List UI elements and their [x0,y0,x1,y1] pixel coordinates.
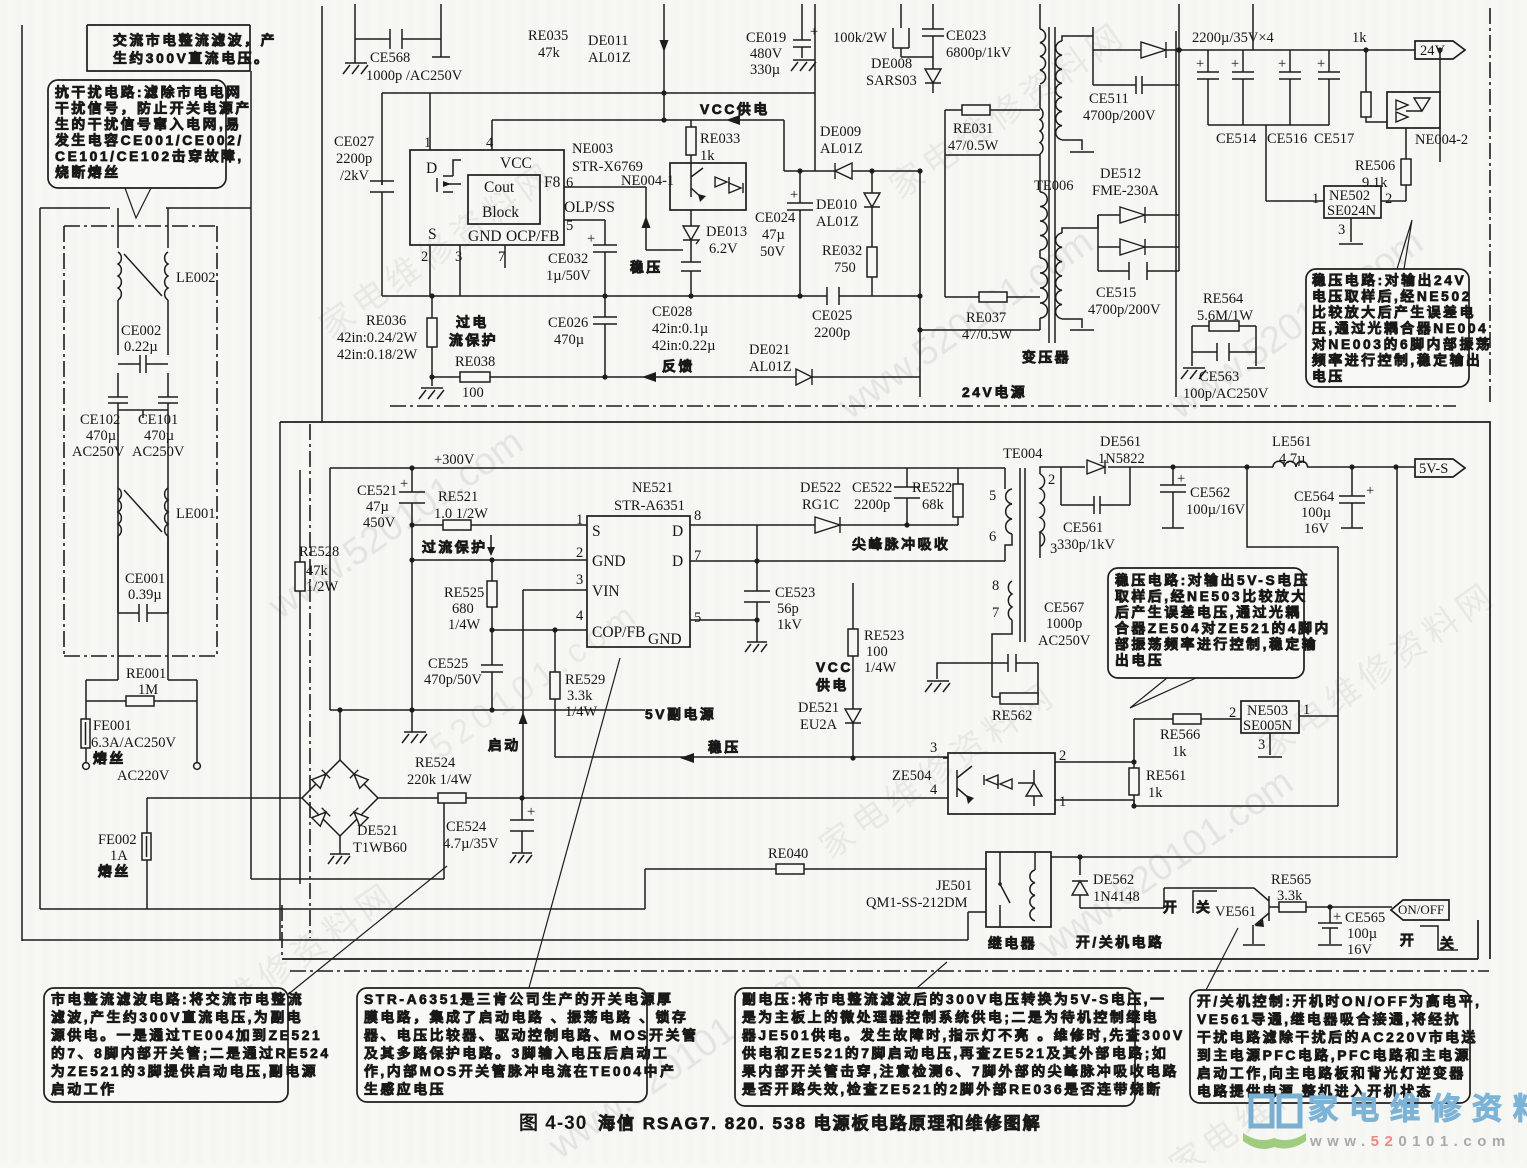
svg-text:市电整流滤波电路:将交流市电整流: 市电整流滤波电路:将交流市电整流 [51,991,304,1007]
svg-text:470µ: 470µ [554,332,584,348]
resistor RE561 [1133,762,1135,806]
svg-text:AL01Z: AL01Z [816,214,859,230]
svg-text:CE511: CE511 [1089,91,1129,107]
svg-text:RE038: RE038 [455,354,495,370]
svg-text:启动: 启动 [488,737,521,753]
svg-text:3: 3 [930,740,937,756]
callout box B: anti-interference note [48,80,226,188]
transistor VE561 [1253,888,1269,944]
svg-text:RE031: RE031 [953,121,993,137]
svg-text:CE561: CE561 [1063,520,1103,536]
callout E pointer [917,962,947,988]
svg-text:CE567: CE567 [1044,600,1084,616]
svg-text:GND: GND [592,553,626,570]
outer enclosure left wall [21,25,23,941]
svg-text:16V: 16V [1304,521,1330,537]
svg-text:1N4148: 1N4148 [1093,889,1140,905]
svg-text:部振荡频率进行控制,稳定输: 部振荡频率进行控制,稳定输 [1115,636,1318,652]
svg-text:RE523: RE523 [864,628,904,644]
svg-text:4: 4 [930,782,938,798]
svg-text:开/关机电路: 开/关机电路 [1076,934,1164,950]
svg-text:SE024N: SE024N [1327,203,1377,219]
IC NE003 STR-X6769 [410,150,564,245]
ground RE036 [419,377,444,399]
relay JE501 [986,852,1051,927]
svg-text:启动工作,向主电路板和背光灯逆变器: 启动工作,向主电路板和背光灯逆变器 [1197,1065,1466,1081]
svg-text:+: + [1278,56,1286,72]
svg-text:6800p/1kV: 6800p/1kV [946,45,1012,61]
svg-text:OLP/SS: OLP/SS [564,199,615,216]
electrolytic CE516 [1279,50,1301,125]
24V output tag [1415,41,1465,59]
svg-text:+: + [1196,56,1204,72]
resistor RE528 [299,470,301,884]
callout box 24V regulation [1306,269,1469,387]
svg-text:1: 1 [1312,191,1319,207]
svg-text:VIN: VIN [592,583,620,600]
svg-text:4: 4 [486,135,494,151]
svg-text:关: 关 [1196,899,1212,915]
svg-text:DE011: DE011 [588,33,629,49]
callout pointer [1397,220,1412,269]
svg-text:Cout: Cout [484,179,515,196]
svg-text:生感应电压: 生感应电压 [364,1081,446,1097]
svg-text:CE515: CE515 [1096,285,1136,301]
stabilize feedback wire [555,756,948,758]
svg-text:470p/50V: 470p/50V [424,672,483,688]
capacitor CE567 [992,620,1038,697]
svg-text:RG1C: RG1C [802,497,839,513]
capacitor CE525 [481,630,503,710]
svg-text:D: D [672,523,683,540]
svg-text:是否开路失效,检查ZE521的2脚外部RE036是否连带烧断: 是否开路失效,检查ZE521的2脚外部RE036是否连带烧断 [742,1081,1163,1097]
svg-text:+: + [1317,56,1325,72]
svg-text:D: D [672,553,683,570]
svg-text:6: 6 [989,529,996,545]
svg-text:CE032: CE032 [548,251,588,267]
svg-text:海信 RSAG7. 820. 538 电源板电路原理和维修图: 海信 RSAG7. 820. 538 电源板电路原理和维修图解 [598,1113,1042,1133]
wire 300V from bridge [378,797,948,799]
svg-text:反馈: 反馈 [662,358,695,374]
capacitor CE515 [1098,247,1179,280]
resistor RE562 [1000,693,1038,704]
capacitor CE025 [801,287,920,305]
svg-text:源供电。一是通过TE004加到ZE521: 源供电。一是通过TE004加到ZE521 [51,1027,322,1043]
svg-text:24V电源: 24V电源 [962,384,1027,400]
svg-text:680: 680 [452,601,474,617]
TE006 wires left [920,4,1040,330]
svg-text:+300V: +300V [434,452,475,468]
svg-text:家电维修资料网: 家电维修资料网 [1308,1093,1527,1126]
svg-text:3: 3 [576,572,583,588]
diode DE010 [871,171,873,193]
svg-text:100: 100 [866,644,888,660]
svg-text:1k: 1k [1148,785,1163,801]
capacitor CE565 [1318,907,1342,945]
svg-text:480V: 480V [750,46,783,62]
diode DE009 [835,163,852,179]
capacitor CE561 [1061,467,1130,514]
NE003 area box top [382,93,815,185]
wire DE562 to VE561 [1080,888,1254,908]
svg-text:2: 2 [1048,472,1055,488]
capacitor CE562 [1160,467,1186,528]
resistor RE032 [871,207,873,296]
svg-text:8: 8 [694,508,701,524]
ZE504 pin2 wire [1055,761,1134,763]
pin wires NE003 [430,93,505,296]
svg-text:CE019: CE019 [746,30,786,46]
svg-text:VCC供电: VCC供电 [700,101,770,117]
svg-text:100: 100 [462,385,484,401]
svg-text:+: + [1366,483,1374,499]
svg-text:STR-A6351: STR-A6351 [614,498,685,514]
svg-text:CE023: CE023 [946,28,986,44]
relay feed wire [1051,467,1397,857]
svg-text:GND: GND [648,631,682,648]
svg-text:烧断熔丝: 烧断熔丝 [55,164,121,180]
svg-text:取样后,经NE503比较放大: 取样后,经NE503比较放大 [1115,588,1308,604]
ground TE004 pin7 [937,663,992,679]
svg-text:+: + [790,187,798,203]
winding 5-6 connection [1005,468,1012,561]
svg-text:42in:0.1µ: 42in:0.1µ [652,321,708,337]
svg-text:比较放大后产生误差电: 比较放大后产生误差电 [1312,304,1476,320]
svg-text:熔丝: 熔丝 [98,863,131,879]
resistor RE036 [431,296,433,377]
svg-text:4.7µ/35V: 4.7µ/35V [443,836,499,852]
svg-text:S: S [428,226,437,243]
callout box C mains filter [44,988,288,1102]
svg-text:CE562: CE562 [1190,485,1230,501]
svg-text:频率进行控制,稳定输出: 频率进行控制,稳定输出 [1312,352,1482,368]
svg-text:GND: GND [468,228,502,245]
rectifier wire 24V [1093,4,1415,50]
svg-text:+: + [527,804,535,820]
svg-text:CE101: CE101 [138,412,178,428]
svg-text:图 4-30: 图 4-30 [519,1112,587,1134]
svg-text:6: 6 [566,175,573,191]
svg-text:1N5822: 1N5822 [1098,451,1145,467]
svg-text:330µ: 330µ [750,62,780,78]
svg-text:ON/OFF: ON/OFF [1398,902,1444,917]
svg-text:稳压: 稳压 [708,739,741,755]
svg-text:关: 关 [1440,935,1456,951]
svg-text:1k: 1k [700,148,715,164]
svg-text:+: + [400,476,408,492]
pin3 VIN wire [523,589,587,591]
IC NE502 [1324,186,1381,218]
svg-text:NE521: NE521 [632,480,673,496]
svg-text:启动工作: 启动工作 [51,1081,117,1097]
TE006 secondary top [1056,41,1062,140]
svg-text:100p/AC250V: 100p/AC250V [1183,386,1269,402]
VCC rail to DE009 [784,93,835,171]
svg-text:CE565: CE565 [1345,910,1385,926]
svg-text:果内部开关管击穿,注意检测6、7脚外部的尖峰脉冲吸收电路: 果内部开关管击穿,注意检测6、7脚外部的尖峰脉冲吸收电路 [741,1063,1179,1079]
electrolytic CE513 [1197,50,1219,125]
svg-text:1µ/50V: 1µ/50V [546,268,591,284]
svg-text:VCC: VCC [500,155,532,172]
svg-text:出电压: 出电压 [1115,652,1164,668]
zener DE013 [683,226,699,244]
svg-text:AC250V: AC250V [72,444,125,460]
svg-text:7: 7 [992,605,999,621]
svg-text:AL01Z: AL01Z [820,141,863,157]
svg-text:1/2W: 1/2W [306,579,339,595]
svg-text:SE005N: SE005N [1243,718,1293,734]
svg-text:F8: F8 [544,174,561,191]
svg-text:流保护: 流保护 [449,332,498,348]
svg-text:RE506: RE506 [1355,158,1395,174]
outer enclosure bottom wall [22,912,986,940]
svg-text:220k 1/4W: 220k 1/4W [407,772,472,788]
TE004 aux winding 8-7 [1008,581,1012,620]
EMI mains filter outer box [40,71,645,909]
svg-text:68k: 68k [922,497,945,513]
svg-text:变压器: 变压器 [1022,349,1071,365]
stabilize arrow to pin6 [564,187,683,250]
svg-text:DE522: DE522 [800,480,841,496]
TE006 primary winding top [1040,29,1046,84]
svg-text:干扰电路滤除干扰后的AC220V市电送: 干扰电路滤除干扰后的AC220V市电送 [1197,1029,1478,1045]
NE003 mosfet symbol [437,160,461,192]
5V-S output tag [1415,459,1465,477]
startup arrow wire [522,590,524,798]
pin2 GND wire [412,559,587,561]
callout pointer [1130,678,1196,708]
svg-text:CE563: CE563 [1199,369,1239,385]
svg-text:CE568: CE568 [370,50,410,66]
svg-text:FE002: FE002 [98,832,137,848]
svg-text:47µ: 47µ [366,499,389,515]
svg-text:LE001: LE001 [176,506,215,522]
terminal circles AC input [83,763,90,770]
capacitor CE023 [922,4,944,69]
svg-text:RE522: RE522 [912,480,952,496]
IC NE503 [1241,701,1299,733]
svg-text:CE002: CE002 [121,323,161,339]
svg-text:16V: 16V [1347,942,1373,958]
svg-text:8: 8 [992,578,999,594]
transformer TE004 core [1020,468,1025,642]
svg-text:47k: 47k [538,45,561,61]
resistor RE566 [1134,719,1241,762]
svg-text:42in:0.24/2W: 42in:0.24/2W [337,330,417,346]
svg-text:继电器: 继电器 [988,935,1037,951]
fuse FE002 [146,798,148,909]
svg-text:CE024: CE024 [755,210,796,226]
svg-text:T1WB60: T1WB60 [353,840,407,856]
svg-text:AL01Z: AL01Z [588,50,631,66]
cap under DE013 [681,240,701,296]
resistor RE525 [491,560,493,630]
svg-text:JE501: JE501 [936,878,972,894]
svg-text:为ZE521的3脚提供启动电压,副电源: 为ZE521的3脚提供启动电压,副电源 [51,1063,318,1079]
svg-text:100µ/16V: 100µ/16V [1186,502,1246,518]
NE502 pin1 wire [1266,125,1324,201]
svg-text:2200p: 2200p [854,497,890,513]
svg-text:LE002: LE002 [176,270,215,286]
TE006 winding 4 [1040,258,1048,318]
svg-text:VE561导通,继电器吸合接通,将经抗: VE561导通,继电器吸合接通,将经抗 [1197,1011,1461,1027]
pointer line to callout C [286,866,447,996]
svg-text:330p/1kV: 330p/1kV [1057,537,1116,553]
svg-text:RE037: RE037 [966,310,1006,326]
svg-text:1.0 1/2W: 1.0 1/2W [434,506,488,522]
svg-text:CE102: CE102 [80,412,120,428]
svg-text:+: + [1177,471,1185,487]
svg-text:2: 2 [421,249,428,265]
capacitor CE024 [787,171,813,296]
svg-text:1000p: 1000p [1046,616,1082,632]
svg-text:RE036: RE036 [366,313,406,329]
svg-text:AC250V: AC250V [1038,633,1091,649]
resistor RE522 [907,468,958,525]
svg-text:1000p /AC250V: 1000p /AC250V [366,68,463,84]
svg-text:470µ: 470µ [144,428,174,444]
svg-text:COP/FB: COP/FB [592,624,645,641]
svg-text:的7、8脚内部开关管;二是通过RE524: 的7、8脚内部开关管;二是通过RE524 [51,1045,331,1061]
callout box 5V-S regulation [1108,568,1304,678]
24V section right chain wall [1489,8,1491,406]
svg-text:D: D [426,160,437,177]
svg-text:稳压电路:对输出24V: 稳压电路:对输出24V [1312,272,1466,288]
svg-text:4700p/200V: 4700p/200V [1088,302,1161,318]
svg-text:2: 2 [576,545,583,561]
VCC node wire [492,119,784,121]
svg-text:CE521: CE521 [357,483,397,499]
svg-text:熔丝: 熔丝 [93,750,126,766]
svg-text:DE008: DE008 [871,56,912,72]
electrolytic CE514 [1232,50,1254,125]
electrolytic CE517 [1318,50,1340,125]
svg-text:1/4W: 1/4W [448,617,481,633]
callout box F on-off control [1190,990,1470,1103]
svg-text:DE009: DE009 [820,124,861,140]
svg-text:抗干扰电路:滤除市电电网: 抗干扰电路:滤除市电电网 [55,84,243,100]
svg-text:450V: 450V [363,515,396,531]
svg-text:5: 5 [694,610,701,626]
section chain border horizontal between 24V and 5V [390,405,1456,407]
svg-text:副电压:将市电整流滤波后的300V电压转换为5V-S电压,一: 副电压:将市电整流滤波后的300V电压转换为5V-S电压,一 [742,991,1167,1007]
svg-text:0.22µ: 0.22µ [124,339,158,355]
svg-text:生约300V直流电压。: 生约300V直流电压。 [113,50,270,66]
svg-text:2: 2 [1385,191,1392,207]
svg-text:6.2V: 6.2V [709,241,738,257]
TE006 winding 3 [1040,192,1047,250]
svg-text:3: 3 [1258,737,1265,753]
svg-text:开/关机控制:开机时ON/OFF为高电平,: 开/关机控制:开机时ON/OFF为高电平, [1197,993,1482,1009]
svg-text:AL01Z: AL01Z [749,359,792,375]
pin7 D wire [690,560,1005,562]
svg-text:ZE504: ZE504 [892,768,932,784]
24V section right wall [1175,31,1177,397]
svg-text:LE561: LE561 [1272,434,1311,450]
sub box 300V area [329,468,331,710]
+300V rail [330,467,1005,469]
svg-text:RE040: RE040 [768,846,808,862]
svg-text:CE524: CE524 [446,819,487,835]
svg-text:2200p: 2200p [814,325,850,341]
svg-text:47/0.5W: 47/0.5W [962,327,1013,343]
svg-text:1A: 1A [110,848,128,864]
svg-text:1/4W: 1/4W [565,704,598,720]
svg-text:压,通过光耦合器NE004: 压,通过光耦合器NE004 [1312,320,1488,336]
svg-text:膜电路，集成了启动电路 、振荡电路 、锁存: 膜电路，集成了启动电路 、振荡电路 、锁存 [364,1009,688,1025]
svg-text:电压取样后,经NE502: 电压取样后,经NE502 [1312,288,1472,304]
svg-text:CE101/CE102击穿故障,: CE101/CE102击穿故障, [55,148,244,164]
svg-text:DE521: DE521 [357,823,398,839]
feedback bus [432,376,920,378]
svg-text:6.3A/AC250V: 6.3A/AC250V [91,735,177,751]
svg-text:CE522: CE522 [852,480,892,496]
mains L wire to bridge box [251,798,444,879]
capacitor CE568 [355,4,441,63]
svg-text:过电: 过电 [456,314,489,330]
svg-text:RE001: RE001 [126,666,166,682]
diode DE021 [796,369,812,385]
ground bus [330,709,645,711]
svg-text:发生电容CE001/CE002/: 发生电容CE001/CE002/ [54,132,244,148]
resistor RE565 [1269,906,1392,908]
capacitor CE523 [744,561,770,642]
svg-text:NE004-2: NE004-2 [1415,132,1468,148]
wire L rail [86,208,118,762]
svg-text:4: 4 [576,608,584,624]
svg-text:VE561: VE561 [1215,904,1256,920]
svg-text:47/0.5W: 47/0.5W [948,138,999,154]
svg-text:1: 1 [1059,794,1066,810]
svg-text:稳压: 稳压 [630,259,663,275]
svg-text:FME-230A: FME-230A [1092,183,1159,199]
svg-text:是为主板上的微处理器控制系统供电;二是为待机控制继电: 是为主板上的微处理器控制系统供电;二是为待机控制继电 [742,1009,1159,1025]
pin4 COP/FB wire [492,629,587,631]
svg-text:47k: 47k [306,563,329,579]
winding 2 wire to DE561 [1040,467,1085,474]
svg-text:干扰信号，防止开关电源产: 干扰信号，防止开关电源产 [55,100,252,116]
optocoupler NE004-2 [1387,92,1440,128]
svg-text:生的干扰信号窜入电网,易: 生的干扰信号窜入电网,易 [55,116,242,132]
svg-text:7: 7 [498,249,505,265]
svg-text:www.520101.com: www.520101.com [1309,1133,1511,1150]
inductor LE561 [1273,461,1308,467]
NE502 pin3 ground [1339,218,1363,244]
svg-text:+: + [1231,56,1239,72]
diode 24V rectifier [1141,42,1166,58]
capacitor CE524 [521,798,523,853]
svg-text:RE524: RE524 [415,755,456,771]
svg-text:100µ: 100µ [1301,505,1331,521]
svg-text:交流市电整流滤波，产: 交流市电整流滤波，产 [113,32,277,48]
resistor RE521 [412,524,587,526]
filter chain shield box [64,226,217,656]
resistor RE529 [554,630,556,757]
ground under bridge [339,836,341,854]
svg-text:47µ: 47µ [762,227,785,243]
bottom sample loop wire [1134,716,1338,806]
svg-text:对NE003的6脚内部振荡: 对NE003的6脚内部振荡 [1312,336,1492,352]
svg-text:Block: Block [482,204,519,221]
wire bridge plus to bus [339,710,341,760]
svg-text:SARS03: SARS03 [866,73,917,89]
svg-text:NE503: NE503 [1247,703,1288,719]
svg-text:750: 750 [834,260,856,276]
svg-text:AC250V: AC250V [132,444,185,460]
VCC feed wire with arrow [663,4,665,120]
TE004 primary winding 2-3 [1040,474,1045,547]
svg-text:AC220V: AC220V [117,768,170,784]
